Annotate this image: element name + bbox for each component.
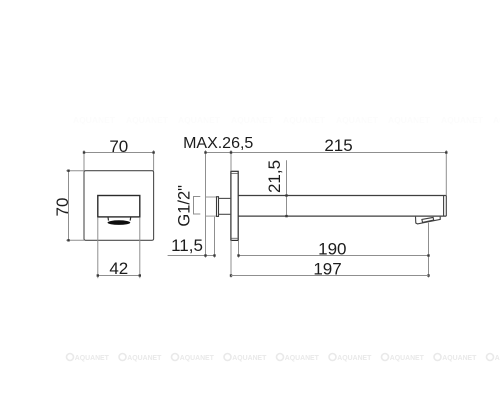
svg-text:AQUANET: AQUANET (390, 355, 425, 362)
wall plate square front (84, 171, 154, 241)
svg-text:AQUANET: AQUANET (178, 115, 221, 125)
spout end cap (443, 196, 445, 217)
G1/2 bracket (194, 197, 201, 215)
spout tube bottom (238, 215, 446, 217)
svg-text:AQUANET: AQUANET (232, 355, 267, 362)
svg-text:AQUANET: AQUANET (336, 115, 379, 125)
svg-text:70: 70 (53, 198, 72, 217)
pipe neck top (219, 197, 232, 199)
pipe body G1/2 (206, 197, 217, 216)
svg-text:AQUANET: AQUANET (75, 355, 110, 362)
watermark logo 4 (224, 354, 231, 361)
pipe collar (217, 197, 219, 217)
dim 11,5 line (168, 255, 215, 257)
svg-text:AQUANET: AQUANET (285, 355, 320, 362)
svg-text:197: 197 (313, 259, 341, 278)
svg-text:42: 42 (109, 259, 128, 278)
plate edge detail top (231, 172, 237, 174)
spout body front (98, 196, 140, 217)
watermark row faint top (73, 115, 500, 125)
ext line plate right face down (238, 240, 240, 257)
dim 42: extension lines (97, 217, 99, 278)
svg-text:190: 190 (318, 239, 346, 258)
dim 70 top: line (84, 152, 154, 154)
wall plate side (231, 171, 238, 240)
dim line top: MAX.26,5 + 215 (206, 152, 447, 154)
dim 70 top: extension lines (83, 150, 85, 171)
ext line wall surface upper (230, 150, 232, 171)
aerator front outline (108, 217, 131, 220)
watermark logo 8 (434, 354, 441, 361)
watermark logo 6 (329, 354, 336, 361)
ext line left of pipe (205, 150, 207, 257)
dim 190 line (239, 255, 429, 257)
watermark logo 2 (119, 354, 126, 361)
svg-text:70: 70 (109, 137, 128, 156)
svg-text:AQUANET: AQUANET (283, 115, 326, 125)
aerator side insert (422, 217, 434, 222)
aerator front dark (108, 220, 131, 225)
svg-text:AQUANET: AQUANET (441, 115, 484, 125)
spout tube top (238, 195, 446, 197)
svg-text:AQUANET: AQUANET (442, 355, 477, 362)
watermark logo 1 (67, 354, 74, 361)
svg-text:21,5: 21,5 (265, 160, 284, 193)
svg-text:11,5: 11,5 (171, 236, 203, 255)
watermark logo 7 (382, 354, 389, 361)
plate edge detail bottom (231, 237, 237, 239)
watermark logo 5 (277, 354, 284, 361)
svg-text:215: 215 (324, 136, 352, 155)
svg-text:AQUANET: AQUANET (231, 115, 274, 125)
watermark row bottom (67, 354, 500, 363)
svg-text:AQUA: AQUA (495, 355, 500, 362)
dim 70 left: extension lines (66, 170, 84, 172)
ext line spout tip (445, 150, 447, 195)
dim 21,5 line (286, 160, 288, 216)
svg-text:G1/2": G1/2" (176, 185, 194, 227)
ext line aerator down (428, 223, 430, 278)
svg-text:AQUANET: AQUANET (180, 355, 215, 362)
svg-text:AQUANET: AQUANET (127, 355, 162, 362)
svg-text:MAX.26,5: MAX.26,5 (183, 135, 253, 152)
watermark logo 3 (172, 354, 179, 361)
dim 197 line (231, 275, 429, 277)
svg-text:AQUANET: AQUANET (337, 355, 372, 362)
dim 70 left: line (68, 171, 70, 241)
pipe neck bottom (219, 213, 232, 215)
ext line wall surface down (230, 240, 232, 277)
ext line 11,5 right (214, 217, 216, 258)
dimension tick dots (67, 151, 447, 276)
svg-text:AQUANET: AQUANET (126, 115, 169, 125)
dim 42: line (98, 275, 140, 277)
watermark logo 9 (487, 354, 494, 361)
svg-text:AQUANET: AQUANET (73, 115, 116, 125)
aerator side outline (416, 217, 441, 224)
svg-text:AQUANET: AQUANET (388, 115, 431, 125)
svg-text:AQUA: AQUA (493, 115, 500, 125)
